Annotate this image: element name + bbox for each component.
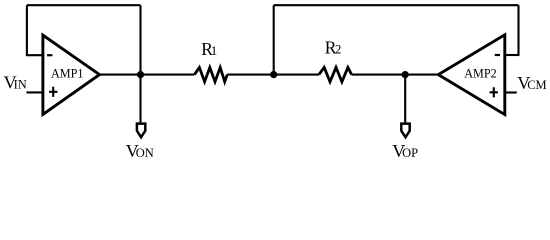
op-amp U1 AMP1 triangle [43,35,100,114]
svg-text:IN: IN [14,78,27,92]
wire: AMP1 inverting input [26,54,43,56]
AMP1 minus sign [47,54,52,56]
wire: AMP2 feedback right vertical [517,5,519,55]
node VOP junction dot [402,71,409,78]
wire: AMP1 feedback top horizontal [27,4,141,6]
wire: AMP2 inverting input [505,54,520,56]
resistor R2 [319,67,352,81]
svg-text:2: 2 [335,41,342,56]
wire: R2 to AMP2 output [352,74,439,76]
wire: AMP1 feedback left vertical [26,5,28,55]
svg-text:CM: CM [527,78,546,92]
terminal VOP pin symbol [401,124,409,138]
wire: node A vertical up to AMP2 feedback [273,5,275,74]
wire: AMP1 output to R1 [100,74,194,76]
svg-text:ON: ON [136,146,154,160]
svg-text:OP: OP [402,146,418,160]
wire: VCM to AMP2 noninverting input [505,91,517,93]
AMP2 minus sign [495,54,500,56]
svg-text:1: 1 [211,43,218,58]
svg-text:AMP2: AMP2 [464,66,497,80]
wire: VIN to AMP1 noninverting input [27,91,44,93]
wire: AMP2 feedback top horizontal [274,4,519,6]
wire: R1 to R2 [227,74,319,76]
node VON junction dot [137,71,144,78]
wire: VOP node vertical down to VOP terminal [404,75,406,123]
wire: VON node vertical (top wire down to VON terminal) [139,5,141,122]
op-amp U2 AMP2 triangle [438,35,505,115]
svg-text:AMP1: AMP1 [51,67,84,81]
AMP2 plus sign [490,87,498,97]
node A junction dot [270,71,277,78]
terminal VON pin symbol [137,124,145,138]
resistor R1 [194,68,227,82]
AMP1 plus sign [49,87,57,97]
